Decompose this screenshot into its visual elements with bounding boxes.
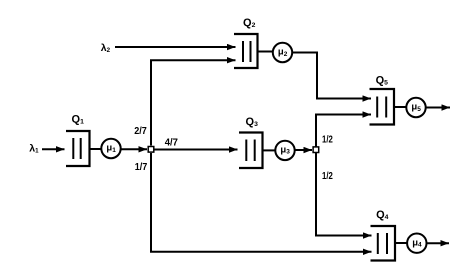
queue Q5 xyxy=(370,89,395,125)
wire junction B down to Q4 upper input xyxy=(316,153,372,236)
label lambda2 xyxy=(101,42,111,54)
label 2/7 xyxy=(134,125,147,137)
server mu1 xyxy=(101,139,120,158)
wire junction A right to Q3 input xyxy=(155,149,238,151)
queue Q1 xyxy=(66,131,90,166)
wire Q3 to server mu3 xyxy=(263,149,276,151)
label Q3 xyxy=(246,116,259,128)
server mu2 xyxy=(273,43,292,62)
wire mu1 to junction node A xyxy=(121,148,147,150)
wire Q5 to server mu5 xyxy=(394,106,406,108)
label 1/2 lower xyxy=(322,170,333,182)
svg-text:2/7: 2/7 xyxy=(134,125,147,137)
queue Q4 xyxy=(371,226,396,261)
wire arrow lambda1 into Q1 xyxy=(42,148,65,150)
wire Q2 to server mu2 xyxy=(258,51,274,53)
junction node A xyxy=(148,147,154,153)
junction node B xyxy=(313,147,319,153)
wire arrow lambda2 into Q2 xyxy=(115,46,236,48)
wire junction A up to Q2 input xyxy=(151,60,236,145)
label Q4 xyxy=(376,209,389,221)
queue Q3 xyxy=(239,133,263,169)
server mu3 xyxy=(275,141,294,160)
wire junction B up to Q5 lower input xyxy=(316,115,371,147)
svg-text:1/2: 1/2 xyxy=(322,133,333,145)
queue Q2 xyxy=(234,34,258,68)
wire output arrow from mu4 xyxy=(427,242,450,244)
label Q2 xyxy=(243,17,256,29)
label Q1 xyxy=(72,114,85,126)
wire Q4 to server mu4 xyxy=(395,242,407,244)
wire mu2 output down to Q5 upper input xyxy=(292,53,371,99)
svg-text:1/2: 1/2 xyxy=(322,170,333,182)
label lambda1 xyxy=(29,143,39,155)
label 1/2 upper xyxy=(322,133,333,145)
wire mu3 to junction node B xyxy=(295,149,312,151)
wire output arrow from mu5 xyxy=(426,107,450,109)
wire Q1 to server mu1 xyxy=(90,148,102,150)
wire junction A down and along bottom to Q4 lower input xyxy=(151,153,372,252)
server mu5 xyxy=(406,98,425,117)
label 1/7 xyxy=(135,161,148,173)
label Q5 xyxy=(376,74,389,86)
svg-text:1/7: 1/7 xyxy=(135,161,148,173)
server mu4 xyxy=(407,234,426,253)
label 4/7 xyxy=(165,137,178,149)
svg-text:4/7: 4/7 xyxy=(165,137,178,149)
